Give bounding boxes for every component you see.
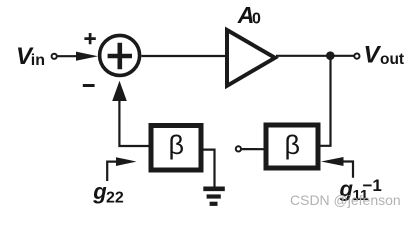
wire input [57, 55, 84, 57]
svg-text:β: β [285, 130, 301, 160]
input arrowhead [76, 52, 98, 61]
svg-text:V: V [364, 42, 382, 69]
summing junction plus cross [108, 43, 132, 69]
minus sign (summer input polarity) [83, 84, 95, 87]
wire output feedback vertical [320, 59, 331, 146]
svg-text:CSDN @jefenson: CSDN @jefenson [290, 192, 401, 208]
op-amp A0 triangle [227, 30, 275, 86]
input terminal [52, 54, 57, 59]
wire terminal to right block [242, 148, 264, 150]
ground [203, 189, 225, 204]
plus sign (summer input polarity) [84, 33, 95, 44]
feedback arrowhead into summer [112, 81, 127, 101]
wire summer feedback (left, from left block to summer) [119, 100, 148, 146]
right block input terminal [236, 146, 241, 151]
svg-text:in: in [31, 52, 45, 69]
wire left block to ground [204, 150, 215, 187]
beta block (right) [266, 125, 318, 168]
svg-text:out: out [380, 51, 404, 68]
wire summer to amp [141, 55, 226, 57]
beta block (left) [151, 126, 201, 171]
g11 pointer arrow [321, 157, 344, 166]
svg-text:0: 0 [252, 11, 261, 28]
output terminal [354, 54, 359, 59]
wire amp to output [276, 55, 355, 57]
output node dot [326, 51, 335, 60]
summing junction [100, 35, 140, 75]
svg-text:β: β [169, 130, 185, 160]
svg-text:22: 22 [106, 189, 124, 206]
g22 pointer arrow [116, 157, 137, 166]
